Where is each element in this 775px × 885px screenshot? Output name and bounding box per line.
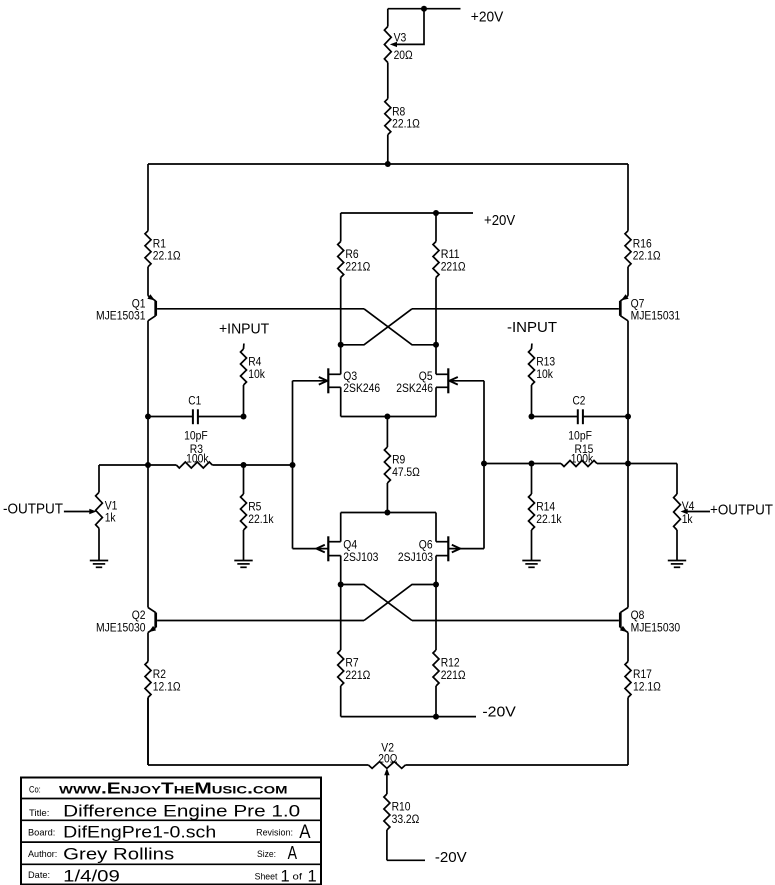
junction: R3 right / R5 top: [241, 462, 247, 468]
wire: Q7 base rail: [412, 308, 619, 310]
resistor R2 12.1ohm: [145, 662, 181, 766]
wire: V2 wiper arrow: [384, 768, 389, 794]
transistor Q3 2SK246 (N-JFET): [293, 345, 381, 417]
wire: Q1 collector down left rail: [147, 321, 149, 465]
resistor R13 10k: [529, 344, 556, 417]
svg-text:10pF: 10pF: [568, 429, 592, 443]
wire: +OUTPUT arrow to V4 wiper: [681, 509, 711, 514]
svg-text:MJE15030: MJE15030: [96, 620, 146, 634]
wire: Q7 base diagonal to left node: [341, 309, 412, 345]
wire: Q7 collector down right rail: [627, 321, 629, 464]
wire: lower drain rail: [341, 512, 436, 514]
wire: V3 wiper tap down-left with arrow: [390, 9, 424, 47]
svg-text:20Ω: 20Ω: [394, 48, 413, 62]
svg-text:1: 1: [308, 868, 317, 885]
wire: Q8 base rail: [412, 620, 619, 622]
svg-text:V3: V3: [394, 31, 407, 45]
transistor Q6 2SJ103 (P-JFET): [398, 513, 484, 585]
svg-text:12.1Ω: 12.1Ω: [153, 679, 181, 693]
svg-text:22.1Ω: 22.1Ω: [392, 117, 420, 131]
net label -INPUT: [507, 320, 557, 336]
wire: left rail mid: [147, 465, 149, 608]
svg-text:MJE15031: MJE15031: [96, 309, 146, 323]
svg-text:221Ω: 221Ω: [441, 668, 466, 682]
svg-text:221Ω: 221Ω: [441, 259, 466, 273]
junction: R11 top: [433, 210, 439, 216]
junction: R12 at -20V rail: [433, 714, 439, 720]
svg-text:12.1Ω: 12.1Ω: [633, 679, 661, 693]
svg-text:2SJ103: 2SJ103: [398, 550, 433, 564]
potentiometer V2 20ohm: [368, 741, 405, 769]
wire: +20V middle rail: [341, 212, 473, 214]
wire: right rail top: [627, 164, 629, 231]
svg-text:1: 1: [281, 868, 290, 885]
resistor R7 221ohm: [338, 585, 371, 717]
ground (below V1): [90, 561, 108, 568]
junction: C1 right / R4 bottom: [241, 414, 247, 420]
title block row Co / www.EnjoyTheMusic.com: [29, 781, 288, 798]
svg-text:221Ω: 221Ω: [345, 668, 370, 682]
wire: bottom rail right: [405, 764, 628, 766]
svg-text:of: of: [293, 872, 303, 883]
junction: C2 left / R13 bottom: [529, 414, 535, 420]
title block row Date / 1-4-09 / Sheet 1 of 1: [28, 868, 317, 885]
svg-text:Co:: Co:: [29, 785, 41, 796]
wire: Q2 base diagonal to right node: [364, 585, 436, 621]
junction: upper X left node: [338, 342, 344, 348]
potentiometer V1 1k: [96, 465, 148, 561]
resistor R17 12.1ohm: [625, 662, 661, 766]
junction: upper X right node: [433, 342, 439, 348]
resistor R16 22.1ohm: [625, 231, 661, 296]
svg-text:Author:: Author:: [28, 849, 57, 860]
svg-text:Grey Rollins: Grey Rollins: [63, 846, 174, 864]
title block row Board / DifEngPre1-0.sch / Revision A: [28, 822, 311, 843]
title block row Author / Grey Rollins / Size A: [28, 843, 297, 864]
svg-text:C1: C1: [188, 393, 201, 407]
net label +INPUT: [219, 322, 269, 338]
svg-text:Revision:: Revision:: [256, 828, 293, 839]
svg-text:A: A: [299, 822, 311, 843]
transistor Q2 MJE15030: [96, 608, 156, 635]
svg-text:1/4/09: 1/4/09: [63, 868, 120, 885]
resistor R6 221ohm: [338, 213, 371, 345]
junction: C2 right: [625, 414, 631, 420]
svg-text:+INPUT: +INPUT: [219, 322, 269, 338]
junction: R3 left: [145, 462, 151, 468]
svg-text:20Ω: 20Ω: [378, 752, 397, 766]
svg-text:22.1Ω: 22.1Ω: [153, 249, 181, 263]
svg-text:V4: V4: [682, 499, 695, 513]
svg-text:Sheet: Sheet: [255, 872, 278, 883]
wire: Q2 base rail: [157, 620, 364, 622]
wire: Q8 base diagonal to left node: [341, 585, 412, 621]
wire: Q1 base rail: [157, 308, 364, 310]
svg-text:DifEngPre1-0.sch: DifEngPre1-0.sch: [63, 824, 216, 842]
svg-text:MJE15030: MJE15030: [631, 620, 681, 634]
junction: left gate rail at R3 rail: [290, 462, 296, 468]
svg-text:-OUTPUT: -OUTPUT: [3, 501, 63, 517]
wire: right rail mid: [627, 464, 629, 608]
wire: Q8 emitter down: [627, 633, 629, 662]
svg-text:C2: C2: [573, 393, 586, 407]
resistor R9 47.5ohm: [384, 417, 420, 513]
svg-text:100k: 100k: [186, 451, 209, 465]
net label +OUTPUT: [710, 502, 773, 518]
junction: R15 right: [625, 461, 631, 467]
wire: -OUTPUT arrow to V1 wiper: [64, 509, 97, 514]
resistor R5 22.1k: [241, 465, 275, 561]
junction: R15 at R14 top: [529, 461, 535, 467]
resistor R10 33.2ohm: [384, 794, 425, 860]
svg-text:22.1k: 22.1k: [248, 512, 274, 526]
svg-text:2SK246: 2SK246: [396, 381, 433, 395]
svg-text:-20V: -20V: [482, 704, 516, 720]
svg-text:100k: 100k: [571, 451, 594, 465]
potentiometer V4 1k: [628, 464, 695, 561]
junction: V3 wiper tap: [421, 6, 427, 12]
transistor Q1 MJE15031: [96, 294, 156, 323]
resistor R8 22.1ohm: [385, 99, 420, 164]
svg-text:33.2Ω: 33.2Ω: [392, 812, 420, 826]
wire: Q2 emitter down: [147, 633, 149, 662]
svg-text:Board:: Board:: [28, 828, 55, 839]
svg-text:2SK246: 2SK246: [343, 381, 380, 395]
svg-text:22.1k: 22.1k: [536, 512, 562, 526]
potentiometer V3 20ohm: [384, 9, 412, 99]
power +20V (middle): [484, 213, 515, 229]
ground (below R5): [234, 561, 252, 568]
wire: +20V top rail: [388, 8, 461, 10]
junction: R9 bottom: [384, 510, 390, 516]
junction: R8 to top bus: [385, 161, 391, 167]
resistor R1 22.1ohm: [145, 231, 181, 296]
wire: right gate rail (Q5/Q6 gates): [483, 381, 485, 549]
svg-text:Title:: Title:: [29, 808, 49, 819]
junction: right gate rail at R15 rail: [481, 461, 487, 467]
resistor R12 221ohm: [433, 585, 466, 717]
wire: Q1 base diagonal to right node: [364, 309, 436, 345]
junction: R9 top: [384, 414, 390, 420]
svg-text:+20V: +20V: [484, 213, 515, 229]
transistor Q7 MJE15031: [620, 294, 680, 323]
transistor Q8 MJE15030: [620, 608, 680, 635]
net label -OUTPUT: [3, 501, 63, 517]
svg-text:-20V: -20V: [435, 850, 467, 866]
svg-text:1k: 1k: [682, 512, 694, 526]
svg-text:Date:: Date:: [28, 870, 50, 881]
power -20V (bottom): [435, 850, 467, 866]
title block row Title / Difference Engine Pre 1.0: [29, 803, 300, 821]
svg-text:22.1Ω: 22.1Ω: [633, 249, 661, 263]
svg-text:221Ω: 221Ω: [345, 259, 370, 273]
resistor R3 100k: [148, 442, 293, 468]
junction: lower X left node: [338, 582, 344, 588]
svg-text:www.EnjoyTheMusic.com: www.EnjoyTheMusic.com: [59, 781, 288, 798]
ground (below V4): [668, 561, 686, 568]
wire: left gate rail (Q3/Q4 gates): [292, 381, 294, 549]
wire: left rail top: [147, 164, 149, 231]
capacitor C1 10pF: [148, 393, 244, 442]
resistor R14 22.1k: [529, 464, 563, 561]
power +20V (top): [471, 10, 504, 26]
svg-text:Difference Engine Pre 1.0: Difference Engine Pre 1.0: [63, 803, 300, 821]
svg-text:+20V: +20V: [471, 10, 504, 26]
svg-text:Size:: Size:: [257, 849, 276, 860]
title block frame: [21, 778, 321, 885]
wire: bottom rail left: [148, 698, 368, 766]
wire: upper source rail: [341, 416, 436, 418]
capacitor C2 10pF: [532, 393, 629, 442]
svg-text:+OUTPUT: +OUTPUT: [710, 502, 773, 518]
resistor R15 100k: [484, 442, 628, 467]
svg-text:10pF: 10pF: [184, 429, 208, 443]
svg-text:-INPUT: -INPUT: [507, 320, 557, 336]
junction: C1 left: [145, 414, 151, 420]
wire: -20V middle rail: [341, 716, 476, 718]
junction: lower X right node: [433, 582, 439, 588]
transistor Q5 2SK246 (N-JFET): [396, 345, 484, 417]
resistor R11 221ohm: [433, 213, 466, 345]
ground (below R14): [522, 561, 540, 568]
svg-text:MJE15031: MJE15031: [631, 309, 681, 323]
wire: top supply bus: [148, 163, 628, 165]
power -20V (middle): [482, 704, 516, 720]
svg-text:2SJ103: 2SJ103: [343, 550, 378, 564]
svg-text:47.5Ω: 47.5Ω: [392, 465, 420, 479]
svg-text:10k: 10k: [536, 367, 553, 381]
svg-text:10k: 10k: [248, 367, 265, 381]
svg-text:A: A: [288, 843, 297, 863]
transistor Q4 2SJ103 (P-JFET): [293, 513, 379, 585]
svg-text:1k: 1k: [105, 511, 117, 525]
resistor R4 10k: [241, 344, 266, 417]
